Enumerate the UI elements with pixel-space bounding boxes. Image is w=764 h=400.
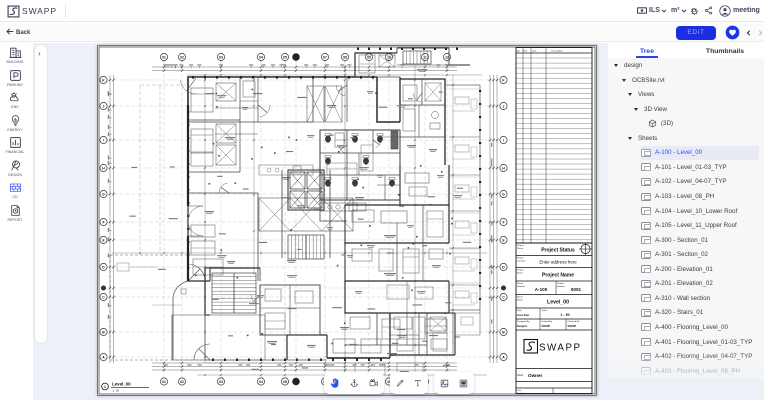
share icon bbox=[704, 6, 713, 15]
svg-text:Client: Client bbox=[517, 374, 523, 377]
currency icon bbox=[637, 7, 647, 14]
svg-text:Project Status: Project Status bbox=[541, 247, 575, 253]
nav chevrons bbox=[746, 29, 751, 37]
tree row A-402 - Flooring_Level_04-07_TYP bbox=[641, 350, 752, 364]
sidebar item ENERGY bbox=[0, 114, 30, 132]
svg-text:Last: Last bbox=[517, 389, 522, 392]
designer row bbox=[516, 329, 592, 331]
tree row A-301 - Section_02 bbox=[641, 248, 708, 262]
svg-text:Description: Description bbox=[552, 50, 564, 53]
tree row OCBSite.rvt bbox=[622, 73, 665, 87]
svg-text:Name: Name bbox=[517, 300, 524, 302]
svg-text:F: F bbox=[502, 221, 504, 225]
unit A labels bbox=[225, 137, 235, 138]
dimension chains left bbox=[108, 75, 115, 363]
svg-text:Level_00: Level_00 bbox=[112, 382, 131, 387]
sidebar item REPORT bbox=[0, 204, 30, 222]
tree row Views bbox=[628, 88, 654, 102]
svg-text:05: 05 bbox=[283, 56, 287, 60]
right unit rooms 2 bbox=[396, 243, 398, 281]
sidebar item FINANCIAL bbox=[0, 136, 30, 154]
svg-text:04: 04 bbox=[259, 380, 263, 384]
junction dots bbox=[441, 171, 443, 173]
svg-text:Checked By: Checked By bbox=[568, 321, 581, 323]
bottom-left unit walls bbox=[205, 268, 210, 281]
svg-text:Date: Date bbox=[532, 50, 537, 53]
svg-text:Project: Project bbox=[517, 244, 524, 247]
extra partitions right bbox=[377, 136, 400, 138]
svg-text:Name: Name bbox=[517, 273, 524, 275]
sidebar item DESIGN bbox=[0, 159, 30, 177]
sheet title Level_00 bbox=[102, 382, 149, 393]
terrace bottom-left bbox=[172, 315, 265, 360]
unit A tall wardrobes center bbox=[307, 86, 324, 122]
toolbar group draw bbox=[390, 372, 428, 394]
tree row A-310 - Wall section bbox=[641, 291, 710, 305]
title block frame bbox=[516, 48, 592, 394]
interior dimension chains bbox=[112, 65, 487, 376]
svg-text:No.: No. bbox=[517, 51, 521, 53]
tree row A-101 - Level_01-03_TYP bbox=[641, 160, 727, 174]
svg-text:Scale: Scale bbox=[542, 310, 548, 312]
svg-text:Drafted By: Drafted By bbox=[542, 320, 553, 323]
svg-text:Number: Number bbox=[557, 285, 565, 288]
revision table bbox=[522, 48, 524, 244]
field Project bbox=[516, 280, 592, 282]
unit A outer walls bbox=[188, 77, 377, 105]
owner row bbox=[516, 381, 592, 383]
bathroom fixtures bbox=[325, 136, 330, 143]
field Sheet bbox=[516, 307, 592, 309]
unit A partitions bbox=[188, 121, 313, 123]
tree row A-400 - Flooring_Level_00 bbox=[641, 320, 728, 334]
field Project bbox=[516, 255, 592, 257]
sidebar item CD bbox=[0, 181, 30, 199]
svg-text:05: 05 bbox=[283, 380, 287, 384]
unit A long table w/ 3 cells bbox=[259, 198, 353, 231]
svg-text:Updated: Updated bbox=[517, 392, 526, 395]
unit A bottom-left closets bbox=[191, 225, 215, 237]
tree row 3D View bbox=[634, 102, 667, 116]
bottom wall reinforce bbox=[287, 359, 327, 361]
svg-text:Enter address here: Enter address here bbox=[539, 260, 577, 265]
svg-text:03: 03 bbox=[219, 56, 223, 60]
scattered labels bbox=[217, 95, 226, 96]
svg-text:J: J bbox=[103, 105, 105, 109]
svg-text:0001: 0001 bbox=[571, 287, 582, 292]
sheet number row bbox=[516, 294, 592, 296]
grid bubbles left bbox=[100, 76, 107, 360]
tree row A-100 - Level_00 bbox=[641, 146, 759, 160]
unit A top rooms bbox=[240, 100, 258, 102]
svg-text:Designed By: Designed By bbox=[517, 321, 530, 323]
svg-text:08: 08 bbox=[343, 56, 347, 60]
elevator core bbox=[288, 170, 324, 210]
svg-text:09: 09 bbox=[367, 56, 371, 60]
svg-text:1 : 50: 1 : 50 bbox=[113, 389, 120, 393]
svg-text:1: 1 bbox=[104, 385, 106, 389]
svg-text:Project: Project bbox=[557, 282, 564, 285]
unit A west double door bbox=[188, 206, 203, 221]
svg-text:11: 11 bbox=[423, 56, 427, 60]
unit A west wall poche bbox=[187, 105, 189, 206]
sidebar item BUILDING bbox=[0, 46, 30, 64]
svg-text:Owner: Owner bbox=[528, 373, 543, 378]
avatar bbox=[719, 5, 731, 17]
dimension chains right bbox=[489, 75, 498, 363]
svg-text:02: 02 bbox=[180, 56, 184, 60]
dashed property lines bbox=[110, 254, 188, 256]
entry arcs bbox=[188, 264, 205, 281]
sheet border bbox=[98, 46, 597, 396]
sidebar item PARKING bbox=[0, 69, 30, 87]
grid lines bbox=[107, 62, 501, 379]
tree row A-403 - Flooring_Level_08_PH bbox=[641, 364, 740, 378]
dimension chains bottom bbox=[152, 362, 457, 371]
bottom-left rooms bbox=[260, 285, 320, 335]
misc left marks bbox=[117, 263, 129, 271]
svg-text:F: F bbox=[102, 221, 104, 225]
grid bubbles top bbox=[160, 53, 450, 62]
toolbar group images bbox=[434, 372, 474, 394]
svg-text:07: 07 bbox=[323, 56, 327, 60]
svg-text:G: G bbox=[102, 193, 105, 197]
central corridor bbox=[281, 170, 283, 258]
tree row A-401 - Flooring_Level_01-03_TYP bbox=[641, 335, 752, 349]
last updated row bbox=[516, 387, 592, 389]
svg-text:Issue Date: Issue Date bbox=[517, 314, 530, 317]
svg-text:03: 03 bbox=[219, 380, 223, 384]
svg-text:01: 01 bbox=[162, 380, 166, 384]
terrace arc bbox=[173, 281, 188, 297]
svg-text:I: I bbox=[103, 139, 104, 143]
svg-text:SWAPP: SWAPP bbox=[542, 325, 551, 328]
svg-text:SWAPP: SWAPP bbox=[539, 343, 582, 354]
unit A wardrobes mid column bbox=[216, 83, 236, 101]
svg-text:1 : 50: 1 : 50 bbox=[560, 313, 569, 317]
svg-text:Project: Project bbox=[517, 257, 524, 260]
compass symbol bbox=[581, 244, 590, 253]
bottom-right rooms bbox=[390, 312, 455, 314]
grid bubbles bottom bbox=[160, 378, 450, 385]
top shaft block bbox=[355, 53, 397, 77]
svg-text:SWAPP: SWAPP bbox=[568, 325, 577, 328]
bottom-center unit bbox=[345, 312, 449, 314]
dimension chains top bbox=[152, 64, 457, 71]
tree row A-300 - Section_01 bbox=[641, 233, 708, 247]
svg-text:Phase: Phase bbox=[517, 248, 524, 250]
svg-text:02: 02 bbox=[180, 380, 184, 384]
unit A beds west bbox=[191, 88, 213, 112]
svg-text:Date: Date bbox=[517, 309, 522, 312]
svg-text:J: J bbox=[503, 105, 505, 109]
svg-text:G: G bbox=[502, 193, 505, 197]
svg-text:12: 12 bbox=[445, 56, 449, 60]
gear icon bbox=[689, 6, 699, 16]
central stairs bbox=[288, 235, 324, 259]
revision table rows bbox=[516, 58, 592, 240]
scale row bbox=[516, 318, 592, 320]
toolbar group navigate bbox=[324, 372, 384, 394]
window mullion dots bbox=[187, 48, 481, 361]
svg-text:Sheet: Sheet bbox=[517, 296, 523, 299]
heart favorite bbox=[725, 25, 740, 40]
tree row (3D) bbox=[648, 117, 673, 131]
unit A interior extras bbox=[259, 165, 313, 175]
balconies right edge bbox=[445, 84, 480, 86]
field Project bbox=[516, 267, 592, 269]
top-right unit bbox=[400, 79, 445, 165]
right units outer bbox=[399, 165, 401, 205]
svg-text:I: I bbox=[503, 139, 504, 143]
svg-text:Level_00: Level_00 bbox=[547, 299, 569, 305]
unit A doors bbox=[180, 81, 196, 95]
svg-text:Project Name: Project Name bbox=[542, 272, 574, 278]
tree row A-104 - Level_10_Lower Roof bbox=[641, 204, 737, 218]
right unit rooms 1 bbox=[377, 184, 400, 186]
svg-text:01: 01 bbox=[162, 56, 166, 60]
tree row A-103 - Level_08_PH bbox=[641, 190, 714, 204]
grid bubbles right bbox=[500, 76, 507, 360]
right low balcony bbox=[455, 312, 480, 314]
svg-text:Designer: Designer bbox=[517, 325, 527, 328]
tree row A-201 - Elevation_02 bbox=[641, 277, 713, 291]
tree row A-320 - Stairs_01 bbox=[641, 306, 703, 320]
unit A west bedroom partitions bbox=[188, 119, 240, 121]
svg-text:Sheet: Sheet bbox=[517, 282, 523, 285]
more labels bbox=[206, 93, 215, 94]
SWAPP logo in title block bbox=[516, 368, 592, 370]
svg-text:Location: Location bbox=[517, 260, 526, 263]
svg-text:Project: Project bbox=[517, 269, 524, 272]
tree row A-102 - Level_04-07_TYP bbox=[641, 175, 727, 189]
tree row A-105 - Level_11_Upper Roof bbox=[641, 219, 737, 233]
svg-text:A-100: A-100 bbox=[535, 287, 548, 292]
svg-text:10: 10 bbox=[387, 56, 391, 60]
tree row A-200 - Elevation_01 bbox=[641, 262, 713, 276]
bathroom cluster walls bbox=[320, 130, 400, 200]
svg-text:04: 04 bbox=[259, 56, 263, 60]
kitchen below cluster bbox=[320, 203, 366, 211]
bottom stairs bbox=[212, 273, 256, 313]
tree row Sheets bbox=[628, 131, 657, 145]
tree row design bbox=[614, 59, 642, 73]
sidebar item ENV bbox=[0, 91, 30, 109]
svg-text:Number: Number bbox=[517, 285, 525, 288]
